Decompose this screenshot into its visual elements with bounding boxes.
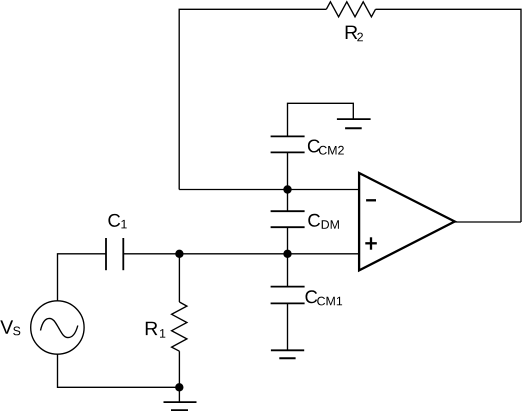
ground (bottom) [164,402,197,410]
capacitor CCM2 [271,136,305,152]
wire op-amp output [452,221,521,223]
wire non-inverting input rail [123,253,359,255]
resistor R2 [326,2,375,17]
capacitor CDM [271,211,305,227]
wire CCM2 upper lead to ground branch [288,103,354,136]
capacitor CCM1 [271,287,305,304]
wire CDM lower lead [287,227,289,254]
label R1 [146,322,166,338]
junction node at VS return [175,383,183,391]
source VS [31,301,84,354]
capacitor C1 [106,238,123,270]
junction node at non-inverting input [283,250,291,258]
label C1 [108,214,126,229]
wire R1 top lead [178,254,180,302]
wire CCM1 lower lead [287,303,289,350]
wire R1 bottom lead to ground [178,351,180,402]
wire inverting input (node to op-amp) [179,189,359,191]
junction node at inverting input [283,185,291,193]
op-amp plus input symbol [365,237,377,249]
junction node at R1 top [175,250,183,258]
wire feedback top-right segment [376,9,522,222]
op-amp minus input symbol [366,199,376,201]
label CCM1 [306,290,343,305]
label CDM [308,214,339,229]
wire VS bottom loop [58,354,180,387]
label CCM2 [308,140,344,155]
label VS [0,320,20,335]
resistor R1 [172,302,187,351]
op-amp U1 [359,173,455,270]
wire feedback top-left segment [179,9,326,189]
wire VS to C1 [58,254,107,301]
label R2 [346,26,363,42]
wire CCM2 lower lead [287,152,289,189]
ground (under CCM1) [271,350,304,358]
wire CCM1 upper lead [287,254,289,287]
wire CDM upper lead [287,190,289,212]
ground (top, under CCM2 branch) [337,119,371,128]
